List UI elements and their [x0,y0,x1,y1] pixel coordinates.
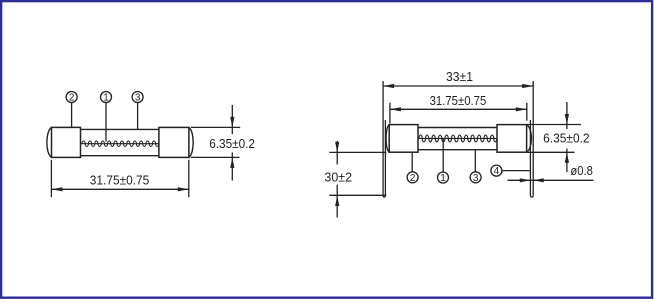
callout leader 2 (left view) [71,102,73,127]
right view: glass tube body [418,128,497,150]
svg-text:2: 2 [69,93,75,104]
left view: fuse right end cap [159,127,193,157]
svg-text:31.75±0.75: 31.75±0.75 [90,173,150,188]
dimension 31.75±0.75 (right view) extension lines [390,103,527,124]
svg-text:33±1: 33±1 [446,69,473,84]
callout leader 1 (left view) [105,102,107,141]
svg-text:3: 3 [135,93,141,104]
callout circle 3 (left view) [132,92,143,104]
svg-text:6.35±0.2: 6.35±0.2 [209,136,255,151]
callout leader 4 (right view) [502,170,530,172]
right view: right lead wire [530,81,533,197]
right view: fuse element coil [418,135,497,142]
right view: fuse left end cap [386,125,418,153]
svg-text:4: 4 [494,166,500,177]
callout leader 2 (right view) [411,152,413,172]
dimension 6.35±0.2 (left view) arrows [230,105,234,181]
callout circle 2 (right view) [407,172,418,184]
dimension ø0.8 leader and arrows [508,178,594,182]
dimension 6.35±0.2 (left view) extension lines [191,127,240,157]
callout circle 3 (right view) [470,172,481,184]
callout leader 3 (left view) [137,102,139,129]
svg-text:6.35±0.2: 6.35±0.2 [543,130,590,145]
dimension 33±1 line and arrows [383,84,533,88]
dimension 31.75±0.75 (right view) line and arrows [390,107,527,111]
svg-text:2: 2 [410,173,416,184]
svg-text:ø0.8: ø0.8 [570,163,593,178]
svg-text:1: 1 [103,93,109,104]
dimension 6.35±0.2 (right view) extension lines [526,125,582,153]
callout circle 1 (right view) [438,172,449,184]
callout circle 2 (left view) [66,92,77,104]
dimension 6.35±0.2 (right view) arrows [565,102,569,172]
left view: fuse element coil [81,141,159,146]
callout circle 1 (left view) [101,92,112,104]
dimension 30±2 extension lines [329,152,386,195]
right view: fuse right end cap [497,125,531,153]
dimension 31.75±0.75 (left view) line and arrows [51,187,188,191]
left view: fuse left end cap [47,127,81,157]
svg-text:31.75±0.75: 31.75±0.75 [430,93,487,108]
svg-text:30±2: 30±2 [324,169,352,184]
callout circle 4 (right view) [491,165,502,177]
svg-text:1: 1 [440,173,446,184]
svg-text:3: 3 [473,173,479,184]
left view: glass tube body [81,129,159,155]
right view: left lead wire [383,81,385,197]
callout leader 3 (right view) [474,150,476,172]
dimension 31.75±0.75 (left view) extension lines [51,160,188,197]
callout leader 1 (right view) [442,139,444,172]
dimension 30±2 arrows [335,141,339,218]
